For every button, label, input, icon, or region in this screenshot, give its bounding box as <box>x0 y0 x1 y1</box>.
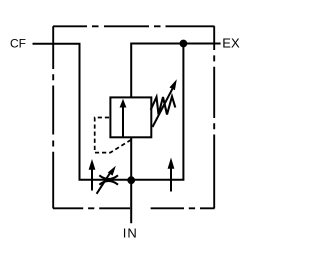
svg-text:IN: IN <box>123 226 138 241</box>
svg-text:EX: EX <box>222 36 240 51</box>
svg-text:CF: CF <box>10 37 26 51</box>
